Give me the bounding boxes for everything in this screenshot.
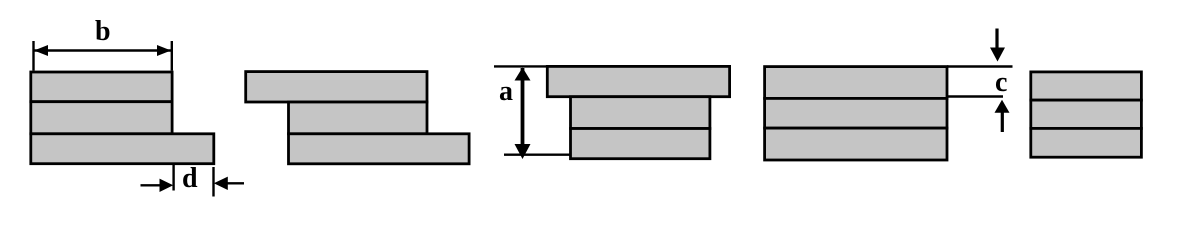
stack1 lamination row1 [31, 72, 172, 102]
svg-text:a: a [499, 76, 513, 107]
dimension b arrowhead right [157, 45, 171, 56]
dimension b line [34, 49, 171, 51]
svg-text:b: b [95, 16, 111, 47]
dimension a arrowhead up [515, 68, 531, 81]
stack4 lamination row1 [765, 67, 947, 99]
dimension b extension line left [32, 41, 34, 71]
dimension a vertical line [521, 68, 525, 155]
svg-text:d: d [182, 163, 198, 194]
stack3 lamination row2 [571, 97, 710, 129]
stack3 lamination row1 (wide top) [547, 66, 729, 96]
svg-text:c: c [995, 67, 1007, 98]
dimension d right arrow [214, 177, 228, 190]
stack5 lamination row3 [1031, 128, 1142, 157]
dimension a extension line top [494, 65, 548, 67]
dimension a extension line bottom [504, 153, 571, 155]
stack1 lamination row2 [31, 102, 172, 134]
stack4 lamination row3 [765, 128, 947, 160]
stack5 lamination row2 [1031, 100, 1142, 128]
stack2 lamination row1 [246, 72, 427, 102]
stack2 lamination row2 [289, 102, 428, 134]
dimension c extension line bottom [947, 95, 1003, 97]
dimension c extension line top [947, 65, 1013, 67]
dimension d extension line left [172, 164, 174, 191]
stack4 lamination row2 [765, 98, 947, 128]
dimension a arrowhead down [515, 144, 531, 159]
stack5 lamination row1 [1031, 72, 1142, 100]
dimension c down arrow [995, 29, 998, 50]
stack1 lamination row3 (wide bottom) [31, 134, 214, 164]
dimension d extension line right [212, 167, 214, 197]
dimension b arrowhead left [34, 45, 48, 56]
stack3 lamination row3 [571, 129, 710, 159]
stack2 lamination row3 [289, 134, 470, 164]
dimension d left arrow [141, 184, 162, 186]
dimension c up arrow [995, 100, 1010, 113]
dimension b extension line right [171, 41, 173, 71]
